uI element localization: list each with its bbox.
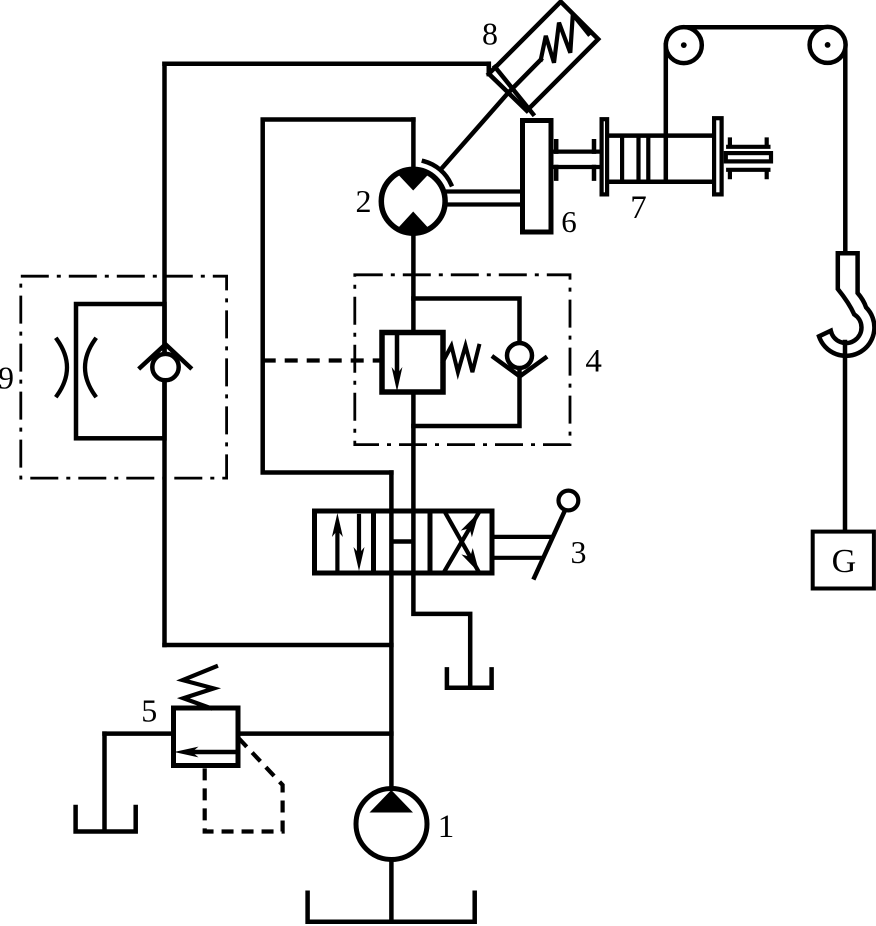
valve 3 lever xyxy=(534,507,566,578)
valve 3 left position up arrow xyxy=(335,528,339,571)
box 9 inner rectangle xyxy=(76,304,165,438)
shaft end ticks xyxy=(556,141,594,178)
drum 7 right flange xyxy=(714,118,722,194)
hydraulic motor 2 xyxy=(381,169,445,233)
check valve ball in box 4 xyxy=(507,343,532,368)
directional valve 3 body xyxy=(315,511,493,573)
svg-text:9: 9 xyxy=(0,360,14,396)
tank symbol below valve 3 xyxy=(447,669,492,687)
drum 7 right shaft bar xyxy=(726,153,771,161)
pulley left xyxy=(666,27,702,63)
cable over pulleys xyxy=(684,25,828,30)
relief valve 5 pilot dashed loop xyxy=(205,738,283,832)
check valve seat in box 9 xyxy=(140,344,190,367)
svg-text:2: 2 xyxy=(356,183,372,219)
wire bottom-left horizontal to pump line xyxy=(165,643,392,648)
wire shaft coupling 6 to drum 7 xyxy=(551,152,600,167)
drum 7 cable wraps xyxy=(622,136,648,182)
wire relief valve 5 drain down xyxy=(102,734,107,829)
throttle arcs in box 9 xyxy=(57,340,67,396)
drum 7 bearing rail upper xyxy=(728,140,768,147)
svg-text:7: 7 xyxy=(630,190,647,226)
wire pump suction below pump 1 xyxy=(389,858,394,921)
valve 3 lever links xyxy=(492,537,551,558)
brake cylinder 8 body xyxy=(489,2,598,111)
hook xyxy=(819,253,874,356)
relief valve 4 flow arrow xyxy=(395,334,400,372)
brake cylinder 8 spring xyxy=(541,14,589,62)
wire pump pressure line (vertical through valve 3) xyxy=(389,473,394,791)
svg-text:8: 8 xyxy=(482,16,498,52)
wire motor top port xyxy=(411,120,416,173)
valve 3 right position crossed arrows xyxy=(444,513,478,572)
cable from right pulley down to hook xyxy=(843,45,848,254)
check valve seat in box 4 xyxy=(494,357,546,376)
tank symbol below pump 1 xyxy=(308,893,475,922)
brake band arc on motor 2 xyxy=(424,161,451,184)
valve 3 left position down arrow xyxy=(357,516,361,556)
pulley right xyxy=(810,27,846,63)
drum 7 body xyxy=(608,136,713,182)
wire top line from left riser to brake cylinder 8 xyxy=(165,64,489,74)
svg-text:6: 6 xyxy=(561,204,577,239)
relief valve 5 flow arrow xyxy=(194,750,238,755)
wire relief valve 5 branch xyxy=(105,731,392,736)
wire motor shaft to coupling 6 xyxy=(444,192,523,205)
wire check valve branch in box 4 xyxy=(413,299,519,427)
relief valve square in box 4 xyxy=(382,333,443,393)
weight box G xyxy=(813,532,874,589)
valve 3 centre connector bar xyxy=(392,539,413,544)
wire left bypass route: up-left corner to motor line xyxy=(263,120,414,473)
relief valve 5 square xyxy=(174,708,239,766)
drum 7 bearing rail lower xyxy=(728,170,768,177)
wire motor bottom line down through box 4 and valve 3 xyxy=(413,231,470,685)
box 4 dash-dot enclosure xyxy=(355,275,570,445)
svg-text:3: 3 xyxy=(571,534,587,570)
box 9 dash-dot enclosure xyxy=(21,276,227,478)
coupling 6 xyxy=(523,121,552,233)
brake cylinder 8 piston xyxy=(495,67,533,114)
wire hook to weight G xyxy=(843,342,848,532)
check valve ball in box 9 xyxy=(152,354,178,380)
svg-text:1: 1 xyxy=(438,809,455,845)
valve 3 position dividers xyxy=(374,511,431,573)
svg-text:5: 5 xyxy=(141,693,157,729)
brake cylinder 8 port stub xyxy=(487,64,492,74)
wire left vertical riser through box 9 xyxy=(162,64,167,645)
tank symbol at relief valve 5 xyxy=(76,807,136,832)
relief valve 4 spring xyxy=(443,346,479,372)
svg-text:4: 4 xyxy=(585,344,602,380)
drum 7 left flange xyxy=(602,119,608,194)
svg-text:G: G xyxy=(832,543,857,580)
pump 1 xyxy=(356,789,427,860)
brake rod from cylinder 8 piston to band xyxy=(443,60,541,168)
pilot dashed line to relief valve 4 xyxy=(263,358,382,362)
relief valve 5 spring xyxy=(183,667,216,709)
cable from left pulley down into drum 7 xyxy=(664,45,669,182)
